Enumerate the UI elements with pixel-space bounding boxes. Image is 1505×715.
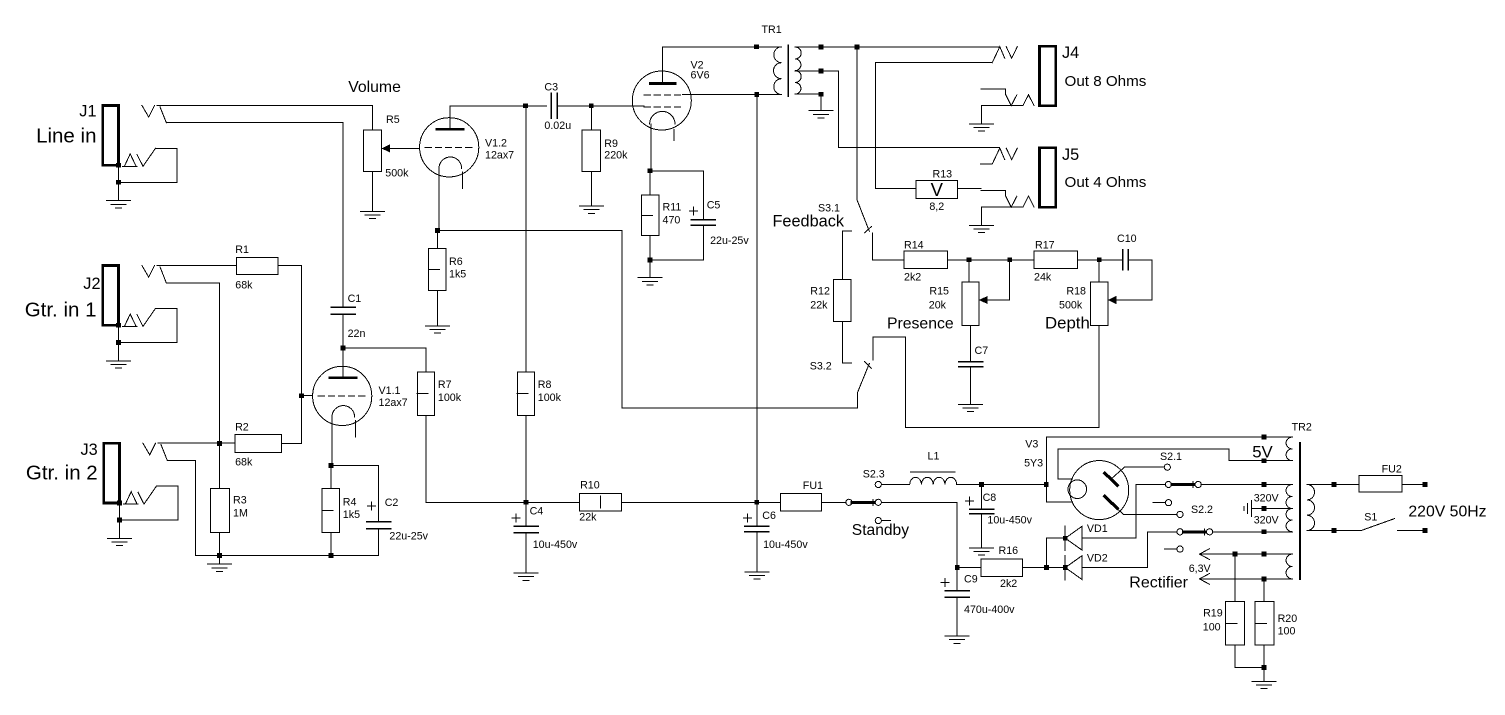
wire R18 top — [1098, 260, 1100, 282]
wire R9 top — [590, 106, 592, 130]
node presence wiper feed — [1007, 257, 1012, 262]
node TR1 primary bottom terminal — [754, 92, 759, 97]
svg-text:L1: L1 — [928, 451, 940, 463]
wire S3.2 contact to depth — [873, 325, 1099, 427]
capacitor C4 plus — [512, 517, 520, 519]
wire C4 bottom — [525, 533, 527, 574]
ground C4 — [514, 572, 538, 574]
jack J3 ground lead — [119, 503, 121, 539]
transformer TR2 HV winding upper — [1286, 485, 1292, 509]
jack J3 sleeve contact — [125, 492, 137, 504]
svg-text:100k: 100k — [438, 392, 462, 404]
jack J4 ground — [969, 123, 993, 125]
node humdinger ground — [1262, 665, 1267, 670]
wire V1.1 plate lead — [342, 348, 344, 366]
svg-text:S1: S1 — [1364, 512, 1377, 524]
node mains N — [1423, 528, 1428, 533]
svg-text:22k: 22k — [810, 300, 828, 312]
node TR2 6.3V bottom — [1262, 577, 1267, 582]
switch S2.1 arm tick — [1192, 482, 1194, 488]
svg-text:100k: 100k — [538, 392, 562, 404]
jack J3 ring switch contact — [138, 486, 156, 504]
ground C9 — [945, 635, 969, 637]
jack J2 body — [103, 266, 119, 326]
resistor R9 — [582, 130, 601, 171]
wire R9 bottom — [590, 171, 592, 206]
wire J5 switch stub — [981, 163, 993, 165]
potentiometer R15 — [962, 282, 979, 325]
jack J4 body — [1039, 46, 1055, 105]
node R19 top — [1233, 552, 1238, 557]
svg-text:100: 100 — [1278, 626, 1296, 638]
switch S2.2 tube contact — [1177, 511, 1183, 517]
wire R12 bottom — [841, 322, 843, 364]
svg-text:R19: R19 — [1203, 608, 1223, 620]
jack J5 sleeve switch wire — [981, 191, 1017, 208]
fuse FU2 — [1359, 476, 1402, 493]
switch S2.3 arm — [852, 501, 875, 504]
wire VD1 cathode — [1047, 538, 1065, 567]
wire S2.3 top to L1 — [882, 484, 910, 486]
wire TR1 B+ feed — [756, 95, 758, 503]
svg-text:C7: C7 — [975, 345, 989, 357]
svg-text:R6: R6 — [449, 256, 463, 268]
node TR2 HV tap — [1262, 506, 1267, 511]
svg-text:R20: R20 — [1278, 613, 1298, 625]
svg-text:R2: R2 — [235, 422, 249, 434]
svg-text:J2: J2 — [83, 275, 100, 293]
node V2 cathode — [648, 168, 653, 173]
resistor R10 — [579, 494, 621, 511]
jack J5 tip contact — [1006, 148, 1017, 160]
svg-text:C5: C5 — [707, 200, 721, 212]
wire V2 cathode lead — [650, 124, 652, 171]
resistor R1 — [236, 257, 278, 274]
capacitor C7 — [959, 361, 983, 363]
wire TR1 secondary top — [795, 46, 999, 48]
transformer TR2 HV winding lower — [1286, 509, 1292, 532]
capacitor C9 plus — [941, 582, 949, 584]
node R11 bottom — [648, 258, 653, 263]
jack J3 tip switch contact — [161, 445, 167, 461]
svg-text:22n: 22n — [348, 328, 366, 340]
node rail R4 — [329, 553, 334, 558]
svg-text:TR1: TR1 — [762, 24, 782, 36]
wire R15 top — [968, 260, 970, 282]
wire L1 to C8 — [957, 484, 1047, 486]
svg-text:J5: J5 — [1062, 146, 1079, 164]
transformer TR1 secondary winding — [795, 47, 801, 94]
capacitor C3 — [550, 93, 552, 118]
svg-text:10u-450v: 10u-450v — [987, 515, 1032, 527]
svg-text:1k5: 1k5 — [343, 509, 360, 521]
node V1.1 plate — [341, 346, 346, 351]
wire TR2 primary top — [1307, 484, 1359, 486]
svg-text:Line in: Line in — [36, 125, 96, 148]
svg-text:Volume: Volume — [348, 79, 401, 96]
capacitor C8 — [970, 508, 994, 510]
node VD junction — [1044, 565, 1049, 570]
svg-text:C3: C3 — [544, 81, 558, 93]
fuse FU1 — [780, 493, 821, 511]
wire R11 to ground — [649, 260, 651, 278]
svg-text:V1.2: V1.2 — [485, 138, 507, 150]
resistor R13 — [916, 180, 957, 198]
transformer TR2 core — [1299, 443, 1301, 579]
svg-text:5Y3: 5Y3 — [1024, 458, 1043, 470]
svg-text:S2.3: S2.3 — [863, 469, 885, 481]
wire TR2 center tap — [1252, 508, 1293, 510]
svg-text:R12: R12 — [810, 286, 830, 298]
svg-text:J1: J1 — [79, 103, 96, 121]
potentiometer R18 — [1091, 282, 1108, 325]
jack J1 ground — [107, 200, 131, 202]
svg-text:68k: 68k — [235, 280, 253, 292]
svg-text:R4: R4 — [343, 497, 357, 509]
transformer TR1 primary winding — [774, 47, 782, 95]
wire R16 right — [1023, 567, 1065, 569]
wire R15 bottom — [970, 325, 972, 361]
svg-text:S2.1: S2.1 — [1160, 451, 1182, 463]
capacitor C2 plus — [368, 505, 376, 507]
node TR2 5V bottom — [1262, 458, 1267, 463]
jack J5 tip switch contact — [992, 148, 1005, 164]
inductor L1 — [910, 477, 957, 484]
wire R19 bottom — [1235, 645, 1264, 668]
jack J5 body — [1039, 148, 1055, 207]
wire feedback drop — [856, 47, 858, 199]
node TR1 sec bottom terminal — [819, 92, 824, 97]
node C8 top — [979, 482, 984, 487]
svg-text:V3: V3 — [1025, 439, 1038, 451]
jack J2 sleeve node — [116, 323, 121, 328]
switch S2.3 bottom stub — [882, 520, 891, 522]
transformer TR2 6.3V winding — [1286, 554, 1292, 579]
svg-text:Depth: Depth — [1045, 314, 1090, 333]
jack J2 tip switch contact — [160, 267, 166, 283]
inductor L1 core bar — [911, 471, 955, 473]
wire C1 bottom — [342, 314, 344, 348]
jack J4 sleeve base — [981, 105, 1023, 107]
resistor R8 — [517, 372, 534, 416]
wire R15 wiper — [988, 260, 1010, 300]
wire V2 plate to TR1 — [663, 47, 782, 71]
svg-text:VD1: VD1 — [1087, 523, 1108, 535]
capacitor C9 — [945, 590, 969, 592]
svg-text:6V6: 6V6 — [691, 69, 710, 81]
ground rail symbol — [219, 555, 221, 564]
svg-text:2k2: 2k2 — [1000, 578, 1017, 590]
ground R9 — [579, 205, 603, 207]
jack J3 ground node — [117, 518, 122, 523]
node VD1 apex — [1063, 536, 1068, 541]
node feedback tap — [855, 45, 860, 50]
tube V1.1 12ax7 — [313, 366, 372, 425]
wire R7 bottom to B+ rail — [426, 416, 526, 503]
wire R16 left — [957, 567, 981, 569]
jack J2 ring switch wire — [119, 309, 178, 343]
svg-text:22k: 22k — [579, 512, 597, 524]
node TR2 HV bottom — [1262, 529, 1267, 534]
node depth top — [1097, 257, 1102, 262]
potentiometer R5 — [364, 130, 382, 172]
switch S2.1 left contact — [1165, 481, 1171, 487]
svg-text:12ax7: 12ax7 — [485, 150, 514, 162]
switch S3.1 arm — [857, 200, 869, 232]
capacitor C5 — [691, 219, 715, 221]
resistor R19 — [1226, 602, 1245, 645]
wire 6.3V top — [1200, 553, 1293, 555]
resistor R14 — [904, 251, 947, 268]
svg-text:V: V — [931, 179, 944, 200]
svg-text:R18: R18 — [1066, 286, 1086, 298]
capacitor C6 plus — [743, 517, 751, 519]
jack J3 sleeve contact base — [124, 503, 138, 505]
jack J1 ring switch contact — [137, 148, 155, 166]
wire J3 tip to R2 — [158, 442, 235, 444]
svg-text:FU1: FU1 — [803, 480, 823, 492]
svg-text:R16: R16 — [999, 545, 1019, 557]
node J3 tip junction — [217, 441, 222, 446]
wire TR1 sec ground lead — [820, 94, 822, 111]
svg-text:220V 50Hz: 220V 50Hz — [1408, 504, 1486, 521]
ground R11 — [638, 277, 662, 279]
resistor R7 — [417, 372, 434, 416]
svg-text:R1: R1 — [235, 244, 249, 256]
svg-text:R15: R15 — [929, 286, 949, 298]
capacitor C10 — [1122, 250, 1124, 270]
jack J4 sleeve switch wire — [981, 89, 1017, 106]
node TR2 5V top — [1262, 435, 1267, 440]
svg-text:6,3V: 6,3V — [1189, 563, 1212, 575]
node rail R3 — [217, 553, 222, 558]
wire R6 bottom — [437, 290, 439, 325]
svg-text:Out 8 Ohms: Out 8 Ohms — [1065, 73, 1147, 90]
ground humdinger — [1252, 681, 1276, 683]
switch S2.1 spare stub — [1153, 502, 1165, 504]
wire S2.1 to TR2 — [1201, 484, 1292, 486]
node TR2 6.3V top — [1262, 552, 1267, 557]
node mains L — [1423, 482, 1428, 487]
switch S3.2 fixed contact — [842, 362, 851, 364]
jack J5 ground — [969, 224, 993, 226]
jack J1 body — [103, 105, 119, 165]
wire R20 top — [1263, 579, 1265, 602]
resistor R11 — [642, 195, 659, 236]
svg-text:470: 470 — [663, 215, 681, 227]
wire J1 switch to C1 — [166, 123, 343, 308]
wire C6 top — [756, 502, 758, 526]
wire R20 bottom — [1263, 645, 1265, 668]
wire V1.1 plate to R7 — [343, 348, 426, 372]
jack J2 sleeve contact base — [123, 325, 137, 327]
tube V3 5Y3 envelope — [1070, 461, 1129, 520]
switch S2.2 left contact — [1177, 529, 1183, 535]
wire filament B — [1058, 449, 1293, 479]
wire C5 top — [650, 171, 704, 220]
wire feedback return — [438, 231, 858, 409]
wire R10 to C6 node — [622, 501, 757, 503]
node VD2 apex — [1063, 565, 1068, 570]
wire J2 tip to R1 — [157, 265, 236, 267]
potentiometer R18 wiper arrow — [1108, 296, 1117, 304]
resistor R16 — [981, 559, 1023, 577]
wire filament A lead — [1045, 485, 1047, 503]
switch S3.1 fixed contact — [842, 230, 851, 232]
svg-text:470u-400v: 470u-400v — [964, 604, 1015, 616]
svg-text:1k5: 1k5 — [449, 268, 466, 280]
svg-text:20k: 20k — [929, 300, 947, 312]
wire C3 right to V2 grid — [557, 105, 632, 107]
svg-text:0.02u: 0.02u — [544, 120, 571, 132]
ground TR2 center tap — [1251, 501, 1253, 517]
svg-text:500k: 500k — [1059, 300, 1083, 312]
switch S2.2 arm — [1183, 530, 1206, 533]
svg-text:100: 100 — [1203, 622, 1221, 634]
svg-text:320V: 320V — [1254, 514, 1280, 526]
svg-text:320V: 320V — [1254, 493, 1280, 505]
jack J2 ground — [107, 360, 131, 362]
svg-text:R17: R17 — [1035, 239, 1055, 251]
jack J2 ground node — [116, 340, 121, 345]
wire V3 bottom plate to S2.2 — [1124, 513, 1177, 515]
node V1.1 cathode — [329, 463, 334, 468]
svg-text:22u-25v: 22u-25v — [710, 235, 749, 247]
switch S2.2 spare stub — [1165, 548, 1177, 550]
svg-text:R14: R14 — [904, 239, 924, 251]
wire V2 grid lead — [615, 105, 644, 107]
tube V3 bottom anode lead — [1112, 504, 1124, 515]
wire VD2 anode to S2.2 — [1082, 532, 1177, 568]
wire C2 bottom — [378, 529, 380, 556]
svg-text:C1: C1 — [348, 293, 362, 305]
svg-text:S3.2: S3.2 — [810, 361, 832, 373]
wire FU2 right — [1402, 484, 1425, 486]
wire V1.2 plate to C3 node — [450, 106, 547, 118]
resistor R4 — [322, 489, 339, 533]
jack J1 ring switch wire — [119, 148, 178, 182]
ground R5 — [361, 210, 385, 212]
jack J3 ground — [108, 538, 132, 540]
ground C8 — [970, 547, 994, 549]
transformer TR2 5V winding — [1286, 437, 1292, 461]
wire J3 switch to ground rail — [167, 461, 195, 556]
svg-text:C9: C9 — [964, 574, 978, 586]
wire R11 bottom — [649, 236, 651, 261]
wire R3 top — [219, 444, 221, 489]
wire C10 to R18 wiper — [1116, 260, 1152, 300]
tube V3 top anode lead — [1111, 467, 1125, 479]
svg-text:R5: R5 — [386, 114, 400, 126]
ground C6 — [745, 571, 769, 573]
capacitor C2 — [367, 521, 391, 523]
svg-text:R11: R11 — [663, 202, 682, 214]
jack J4 tip contact — [1006, 47, 1017, 59]
jack J3 body — [104, 443, 120, 503]
svg-text:R7: R7 — [438, 379, 452, 391]
switch S3.2 arm tick — [865, 362, 872, 369]
svg-text:2k2: 2k2 — [904, 272, 921, 284]
switch S3.2 arm — [858, 364, 870, 393]
wire humdinger ground lead — [1263, 668, 1265, 682]
wire J1 tip to R5 top — [157, 104, 373, 106]
jack J1 sleeve contact base — [123, 165, 137, 167]
wire B+ rail to dot — [1040, 484, 1046, 486]
svg-text:C6: C6 — [762, 510, 776, 522]
tube V1.2 12ax7 — [420, 118, 479, 177]
node C9 R16 — [955, 565, 960, 570]
wire ground rail — [196, 554, 379, 556]
svg-text:R8: R8 — [538, 379, 552, 391]
wire 5V top — [1046, 436, 1292, 438]
tube V2 6V6 — [632, 71, 691, 130]
jack J5 ground lead — [980, 207, 982, 225]
resistor R17 — [1034, 251, 1078, 268]
wire R5 bottom — [372, 172, 374, 212]
wire C8 top — [981, 485, 983, 510]
wire J4 switch to R13 — [876, 63, 993, 189]
wire R2 right to grid bus — [282, 443, 302, 445]
svg-text:10u-450v: 10u-450v — [533, 539, 578, 551]
wire TR1 4ohm tap to J5 — [795, 71, 999, 148]
svg-text:22u-25v: 22u-25v — [389, 531, 428, 543]
svg-text:24k: 24k — [1034, 272, 1052, 284]
wire FU1 through — [757, 501, 781, 503]
wire 6.3V bottom — [1200, 578, 1293, 580]
wire grid lead V1.1 — [302, 395, 313, 397]
wire VD1 anode to S2.1 — [1082, 485, 1165, 539]
wire R8 bottom — [525, 416, 527, 503]
wire R5 top — [372, 105, 374, 129]
ground R6 — [426, 325, 450, 327]
jack J1 tip switch contact — [160, 107, 166, 123]
jack J1 ground node — [116, 180, 121, 185]
svg-text:Feedback: Feedback — [772, 213, 844, 231]
svg-text:VD2: VD2 — [1087, 553, 1108, 565]
node TR2 HV top — [1262, 482, 1267, 487]
jack J5 sleeve contact — [1023, 196, 1034, 207]
transformer TR2 primary winding — [1307, 485, 1315, 531]
svg-text:R9: R9 — [604, 138, 618, 150]
svg-text:J4: J4 — [1062, 44, 1079, 62]
switch S3.2 pivot lead — [857, 392, 859, 408]
capacitor C1 — [331, 306, 355, 308]
svg-text:C4: C4 — [530, 505, 544, 517]
svg-text:S2.2: S2.2 — [1191, 504, 1213, 516]
switch S2.2 spare contact — [1177, 546, 1183, 552]
svg-text:C10: C10 — [1117, 233, 1137, 245]
svg-text:J3: J3 — [80, 441, 97, 459]
svg-text:68k: 68k — [235, 457, 253, 469]
node C4 — [524, 500, 529, 505]
wire S1 right — [1397, 530, 1425, 532]
potentiometer R5 wiper arrow — [382, 144, 391, 152]
svg-text:Standby: Standby — [852, 522, 909, 539]
svg-text:R10: R10 — [580, 479, 600, 491]
transformer TR1 core — [787, 45, 789, 96]
node B+ filament — [1044, 482, 1049, 487]
wire R3 bottom — [219, 532, 221, 555]
resistor R20 — [1255, 602, 1274, 645]
wire R4 bottom — [330, 532, 332, 555]
wire R1 to grid bus — [278, 266, 301, 444]
heater arrow bottom — [1200, 574, 1210, 579]
wire R13 to J5 sleeve — [957, 187, 981, 189]
svg-text:TR2: TR2 — [1292, 422, 1312, 434]
diode VD1 — [1064, 526, 1066, 550]
jack J1 ground lead — [118, 165, 120, 201]
capacitor C5 plus — [689, 210, 697, 212]
